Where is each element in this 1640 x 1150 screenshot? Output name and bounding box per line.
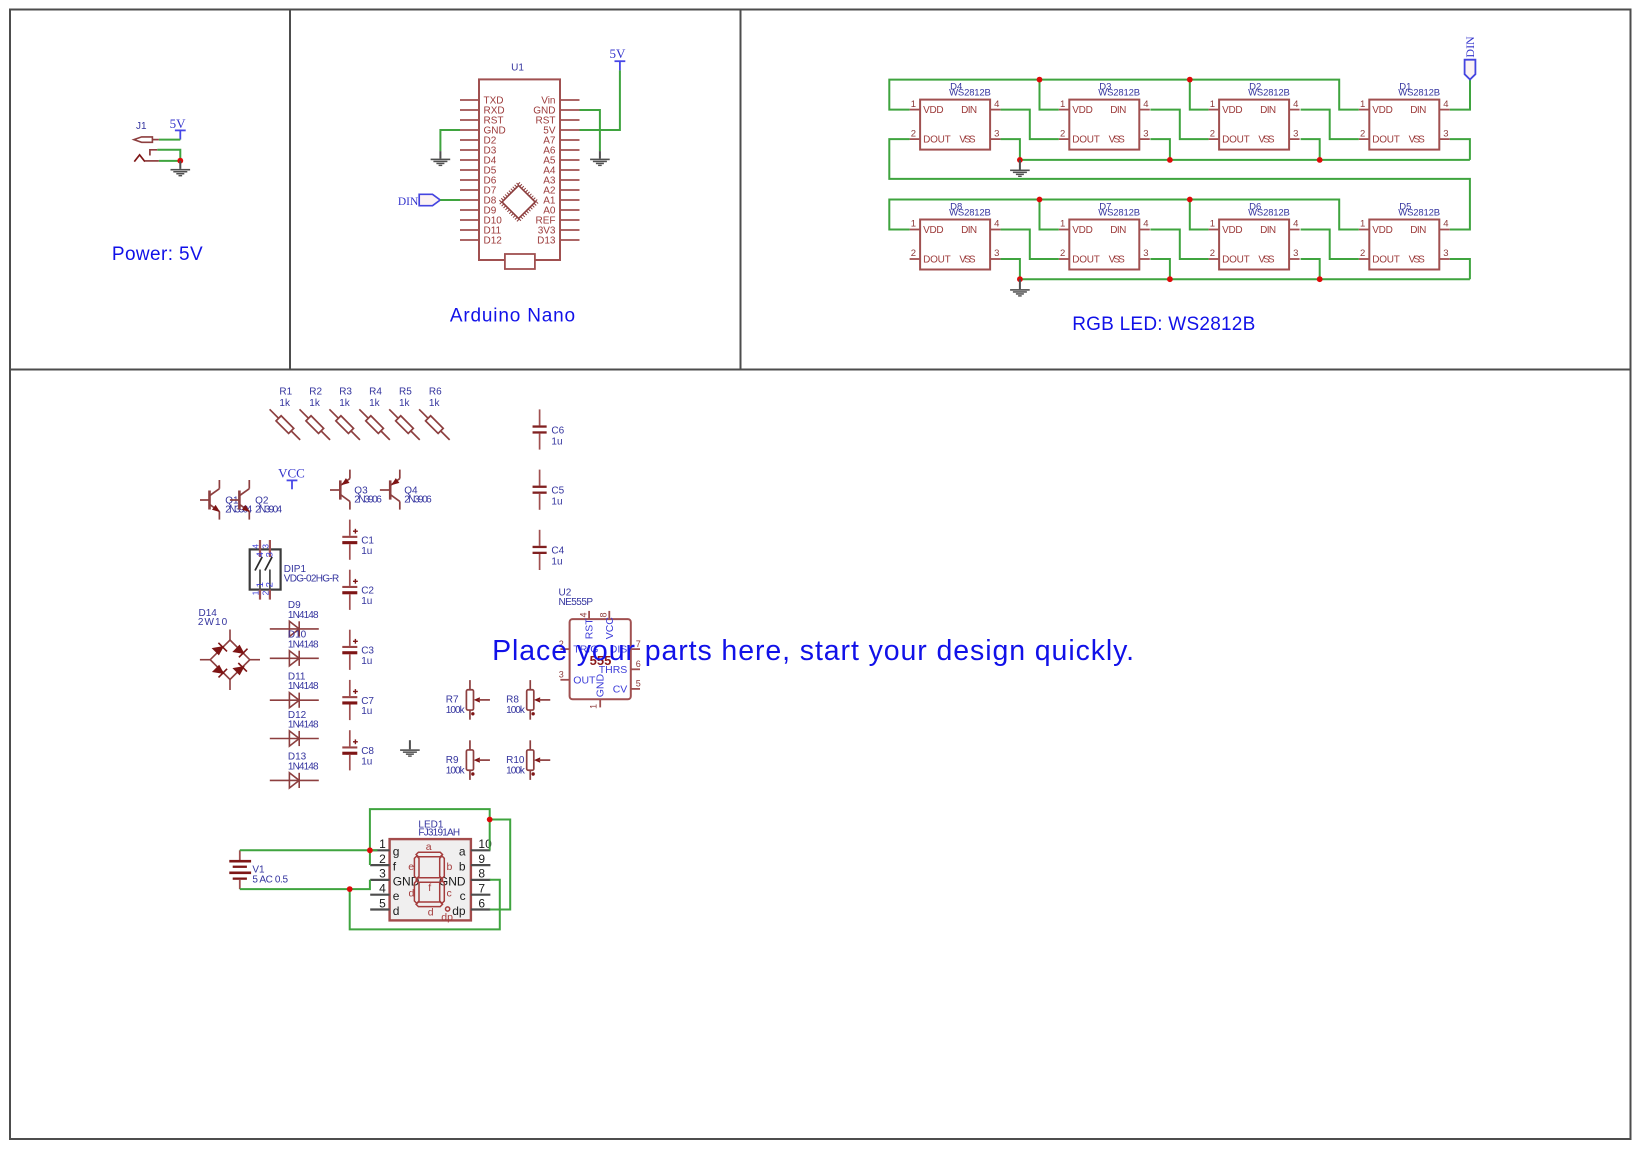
svg-text:5: 5 bbox=[379, 896, 386, 910]
wire LED1 pin8 bottom loop bbox=[350, 880, 500, 930]
svg-text:WS2812B: WS2812B bbox=[949, 207, 991, 218]
7-segment display LED1 FJ3191AH bbox=[370, 820, 492, 924]
LED driver D5 WS2812B bbox=[1359, 201, 1450, 269]
svg-text:WS2812B: WS2812B bbox=[1398, 207, 1440, 218]
svg-text:C4: C4 bbox=[551, 546, 564, 557]
diode D12 1N4148 bbox=[270, 710, 319, 746]
wire VDD bus row2 bbox=[889, 200, 1359, 230]
diode D11 1N4148 bbox=[270, 672, 319, 708]
svg-text:C7: C7 bbox=[361, 696, 374, 707]
svg-text:d: d bbox=[409, 888, 415, 900]
svg-text:d: d bbox=[428, 907, 434, 919]
capacitor C1 1u (polarized) bbox=[342, 520, 374, 560]
svg-text:1N4148: 1N4148 bbox=[288, 639, 319, 650]
resistor R4 1k bbox=[359, 387, 390, 440]
svg-text:3: 3 bbox=[379, 867, 386, 881]
wire D7 VSS riser bbox=[1150, 259, 1170, 279]
svg-text:Arduino Nano: Arduino Nano bbox=[450, 306, 575, 327]
IC U2 NE555P bbox=[559, 588, 641, 709]
transistor Q3 2N3906 bbox=[330, 470, 382, 510]
svg-text:3: 3 bbox=[559, 670, 564, 680]
svg-text:100k: 100k bbox=[446, 705, 466, 716]
svg-text:7: 7 bbox=[478, 882, 485, 896]
wire U1 left GND pin to ground bbox=[440, 130, 460, 151]
junction VDD bus row1 at D2 bbox=[1187, 77, 1193, 83]
wire U1 right GND pin to ground bbox=[580, 110, 600, 151]
svg-text:a: a bbox=[426, 841, 432, 853]
junction VDD bus row2 at D6 bbox=[1187, 197, 1193, 203]
svg-text:R2: R2 bbox=[309, 387, 322, 398]
wire VSS bus row1 bbox=[1020, 159, 1470, 161]
svg-text:C3: C3 bbox=[361, 646, 374, 657]
wire D6 VSS riser bbox=[1301, 259, 1320, 279]
svg-text:C5: C5 bbox=[551, 486, 564, 497]
svg-text:dp: dp bbox=[452, 904, 466, 918]
wire D1 DIN to DIN flag bbox=[1450, 80, 1470, 110]
svg-text:VDG-02HG-R: VDG-02HG-R bbox=[284, 574, 339, 585]
potentiometer R7 100k bbox=[446, 680, 490, 720]
wire D6 DIN to D5 DOUT bbox=[1301, 230, 1359, 260]
wire D8 DIN to D7 DOUT bbox=[1001, 230, 1059, 260]
LED driver D3 WS2812B bbox=[1059, 82, 1150, 150]
svg-text:R5: R5 bbox=[399, 387, 412, 398]
svg-text:2: 2 bbox=[265, 582, 276, 587]
svg-text:RGB LED: WS2812B: RGB LED: WS2812B bbox=[1072, 314, 1255, 335]
ground (U1 left) bbox=[431, 151, 451, 166]
power flag VCC bbox=[278, 466, 305, 490]
wire D7 DIN to D6 DOUT bbox=[1150, 230, 1208, 260]
svg-text:4: 4 bbox=[579, 612, 589, 617]
svg-text:1N4148: 1N4148 bbox=[288, 720, 319, 731]
svg-text:1k: 1k bbox=[309, 398, 321, 409]
svg-text:VCC: VCC bbox=[278, 466, 305, 481]
wire J1 sleeve to ground node bbox=[159, 160, 180, 162]
svg-text:FJ3191AH: FJ3191AH bbox=[418, 828, 460, 839]
diode D13 1N4148 bbox=[270, 752, 319, 788]
svg-text:dp: dp bbox=[441, 911, 453, 923]
wire to LED1 pin6 bbox=[490, 820, 511, 910]
transistor Q4 2N3906 bbox=[380, 470, 432, 510]
svg-text:CV: CV bbox=[613, 683, 628, 695]
svg-text:1k: 1k bbox=[399, 398, 411, 409]
wire V1 plus to LED1 pin1 bbox=[240, 849, 378, 851]
capacitor C8 1u (polarized) bbox=[342, 730, 374, 770]
svg-text:6: 6 bbox=[478, 896, 485, 910]
svg-text:8: 8 bbox=[599, 612, 609, 617]
svg-text:c: c bbox=[447, 888, 452, 900]
svg-text:100k: 100k bbox=[506, 765, 526, 776]
svg-text:DIN: DIN bbox=[1463, 36, 1477, 58]
svg-text:e: e bbox=[408, 861, 414, 873]
junction VSS bus row1 ground bbox=[1017, 157, 1023, 163]
svg-text:8: 8 bbox=[478, 867, 485, 881]
wire DIN flag to U1 D8 bbox=[440, 199, 460, 201]
svg-text:R6: R6 bbox=[429, 387, 442, 398]
svg-text:1N4148: 1N4148 bbox=[288, 681, 319, 692]
svg-text:WS2812B: WS2812B bbox=[1248, 207, 1290, 218]
svg-text:R7: R7 bbox=[446, 695, 459, 706]
ground (floating, bottom box) bbox=[400, 740, 420, 757]
svg-text:f: f bbox=[428, 882, 431, 894]
netflag DIN (U1 D8) bbox=[398, 194, 440, 208]
diode D10 1N4148 bbox=[270, 630, 319, 666]
wire VDD drop D6 bbox=[1190, 200, 1209, 230]
svg-text:g: g bbox=[393, 845, 400, 859]
capacitor C2 1u (polarized) bbox=[342, 570, 374, 610]
svg-text:R4: R4 bbox=[369, 387, 382, 398]
battery V1 5 AC 0.5 bbox=[229, 850, 288, 889]
svg-text:1u: 1u bbox=[551, 436, 562, 447]
capacitor C4 1u bbox=[533, 530, 565, 570]
svg-text:2N3904: 2N3904 bbox=[255, 505, 282, 516]
svg-text:5 AC 0.5: 5 AC 0.5 bbox=[252, 875, 288, 886]
wire to LED1 pin2 bbox=[369, 850, 371, 865]
wire D4 VSS riser bbox=[1001, 139, 1020, 160]
svg-text:2N3906: 2N3906 bbox=[404, 495, 432, 506]
resistor R2 1k bbox=[300, 387, 331, 440]
ground (J1) bbox=[171, 161, 191, 177]
svg-text:C8: C8 bbox=[361, 746, 374, 757]
svg-text:1k: 1k bbox=[339, 398, 351, 409]
svg-text:4: 4 bbox=[251, 544, 261, 549]
svg-text:1k: 1k bbox=[369, 398, 381, 409]
svg-text:D12: D12 bbox=[484, 235, 503, 246]
svg-text:R10: R10 bbox=[506, 755, 525, 766]
svg-text:5: 5 bbox=[636, 679, 641, 689]
potentiometer R8 100k bbox=[506, 680, 550, 720]
svg-text:a: a bbox=[459, 845, 466, 859]
transistor Q2 2N3904 bbox=[230, 480, 283, 520]
capacitor C6 1u bbox=[533, 409, 565, 449]
svg-text:1k: 1k bbox=[429, 398, 441, 409]
svg-text:1u: 1u bbox=[551, 557, 562, 568]
LED driver D2 WS2812B bbox=[1209, 82, 1300, 150]
svg-text:1N4148: 1N4148 bbox=[288, 761, 319, 772]
wire D2 VSS riser bbox=[1301, 139, 1320, 160]
junction VSS bus row1 at D3 bbox=[1167, 157, 1173, 163]
diode D9 1N4148 bbox=[270, 600, 319, 636]
svg-text:C6: C6 bbox=[551, 425, 564, 436]
svg-text:1: 1 bbox=[588, 704, 598, 709]
junction LED1 pin10 node bbox=[487, 817, 493, 823]
svg-text:1u: 1u bbox=[551, 497, 562, 508]
LED driver D8 WS2812B bbox=[910, 201, 1001, 269]
junction VSS bus row1 at D2 bbox=[1317, 157, 1323, 163]
svg-text:WS2812B: WS2812B bbox=[1248, 88, 1290, 99]
svg-text:100k: 100k bbox=[506, 705, 526, 716]
svg-text:1: 1 bbox=[379, 837, 386, 851]
LED driver D4 WS2812B bbox=[910, 82, 1001, 150]
junction VSS bus row2 ground bbox=[1017, 276, 1023, 282]
svg-text:4: 4 bbox=[379, 882, 386, 896]
bridge rectifier D14 2W10 bbox=[198, 608, 260, 690]
svg-text:WS2812B: WS2812B bbox=[1098, 88, 1140, 99]
junction LED1 pin1 node bbox=[367, 847, 373, 853]
svg-text:2W10: 2W10 bbox=[198, 617, 228, 628]
wire to LED1 pin10 bbox=[489, 820, 491, 851]
netflag DIN (RGB chain input) bbox=[1463, 36, 1477, 80]
svg-text:2: 2 bbox=[261, 590, 271, 595]
svg-text:DIN: DIN bbox=[398, 196, 419, 208]
potentiometer R9 100k bbox=[446, 740, 490, 780]
svg-text:C2: C2 bbox=[361, 586, 374, 597]
svg-text:1u: 1u bbox=[361, 596, 372, 607]
svg-text:d: d bbox=[393, 904, 400, 918]
wire D1 VSS riser bbox=[1450, 139, 1470, 160]
wire D5 VSS riser bbox=[1450, 259, 1470, 279]
svg-text:J1: J1 bbox=[136, 121, 147, 132]
svg-text:D13: D13 bbox=[537, 235, 556, 246]
wire VSS bus row2 bbox=[1020, 278, 1470, 280]
svg-text:1N4148: 1N4148 bbox=[288, 610, 319, 621]
wire D3 VSS riser bbox=[1150, 139, 1170, 160]
wire U1 5V pin to 5V flag bbox=[580, 70, 620, 130]
svg-text:R9: R9 bbox=[446, 755, 459, 766]
svg-text:b: b bbox=[447, 861, 453, 873]
svg-text:1u: 1u bbox=[361, 706, 372, 717]
svg-text:100k: 100k bbox=[446, 765, 466, 776]
svg-text:R1: R1 bbox=[279, 387, 292, 398]
resistor R5 1k bbox=[389, 387, 420, 440]
LED driver D7 WS2812B bbox=[1059, 201, 1150, 269]
svg-text:2: 2 bbox=[379, 852, 386, 866]
wire LED1 top loop bbox=[370, 809, 490, 850]
wire J1 middle contact bbox=[157, 150, 180, 161]
power flag 5V (J1) bbox=[170, 116, 187, 139]
ground (U1 right) bbox=[590, 151, 610, 166]
svg-text:b: b bbox=[459, 860, 466, 874]
wire D3 DIN to D2 DOUT bbox=[1150, 110, 1208, 140]
svg-text:WS2812B: WS2812B bbox=[1398, 88, 1440, 99]
wire D2 DIN to D1 DOUT bbox=[1301, 110, 1359, 140]
svg-text:5V: 5V bbox=[609, 46, 626, 61]
svg-text:C1: C1 bbox=[361, 536, 374, 547]
wire VDD drop D7 bbox=[1040, 200, 1059, 230]
svg-text:9: 9 bbox=[478, 852, 485, 866]
wire D8 VSS riser bbox=[1001, 259, 1020, 279]
svg-text:OUT: OUT bbox=[573, 674, 596, 686]
svg-text:WS2812B: WS2812B bbox=[949, 88, 991, 99]
svg-text:WS2812B: WS2812B bbox=[1098, 207, 1140, 218]
wire V1 minus to LED1 pin3 bbox=[240, 880, 370, 889]
wire J1 tip to 5V flag bbox=[159, 139, 180, 141]
ground (WS2812B row2) bbox=[1010, 279, 1030, 296]
LED driver D6 WS2812B bbox=[1209, 201, 1300, 269]
power flag 5V (U1) bbox=[609, 46, 626, 71]
svg-text:1u: 1u bbox=[361, 757, 372, 768]
svg-text:1k: 1k bbox=[279, 398, 291, 409]
svg-text:5V: 5V bbox=[170, 116, 187, 131]
svg-text:U1: U1 bbox=[511, 63, 524, 74]
IC U1 Arduino Nano bbox=[460, 63, 580, 270]
svg-text:1u: 1u bbox=[361, 546, 372, 557]
wire VDD drop D2 bbox=[1190, 80, 1209, 110]
svg-text:Power: 5V: Power: 5V bbox=[112, 244, 203, 265]
svg-text:GND: GND bbox=[594, 674, 606, 698]
svg-text:3: 3 bbox=[265, 552, 276, 557]
resistor R1 1k bbox=[270, 387, 301, 440]
junction J1 ground node bbox=[177, 158, 183, 164]
svg-text:R3: R3 bbox=[339, 387, 352, 398]
junction V1 minus node bbox=[347, 886, 353, 892]
junction VDD bus row2 at D7 bbox=[1037, 197, 1043, 203]
potentiometer R10 100k bbox=[506, 740, 550, 780]
LED driver D1 WS2812B bbox=[1359, 82, 1450, 150]
connector J1 bbox=[134, 121, 159, 162]
svg-text:1: 1 bbox=[251, 590, 261, 595]
switch DIP1 VDG-02HG-R bbox=[250, 540, 339, 600]
transistor Q1 2N3904 bbox=[200, 480, 253, 520]
wire D4 DIN to D3 DOUT bbox=[1001, 110, 1059, 140]
svg-text:e: e bbox=[393, 889, 400, 903]
svg-text:3: 3 bbox=[261, 544, 271, 549]
svg-text:Place your parts here, start y: Place your parts here, start your design… bbox=[492, 635, 1134, 667]
junction VDD bus row1 at D3 bbox=[1037, 77, 1043, 83]
resistor R3 1k bbox=[329, 387, 360, 440]
svg-text:R8: R8 bbox=[506, 695, 519, 706]
ground (WS2812B row1) bbox=[1010, 160, 1030, 177]
capacitor C5 1u bbox=[533, 470, 565, 510]
resistor R6 1k bbox=[419, 387, 450, 440]
capacitor C7 1u (polarized) bbox=[342, 680, 374, 720]
svg-text:c: c bbox=[460, 889, 466, 903]
junction VSS bus row2 at D6 bbox=[1317, 276, 1323, 282]
wire VDD bus row1 bbox=[889, 80, 1359, 110]
svg-text:2N3906: 2N3906 bbox=[354, 495, 382, 506]
capacitor C3 1u (polarized) bbox=[342, 630, 374, 670]
wire VDD drop D3 bbox=[1040, 80, 1059, 110]
svg-text:NE555P: NE555P bbox=[559, 597, 594, 608]
junction VSS bus row2 at D7 bbox=[1167, 276, 1173, 282]
svg-text:1u: 1u bbox=[361, 656, 372, 667]
wire D4 DOUT to D5 DIN link bbox=[889, 139, 1470, 229]
